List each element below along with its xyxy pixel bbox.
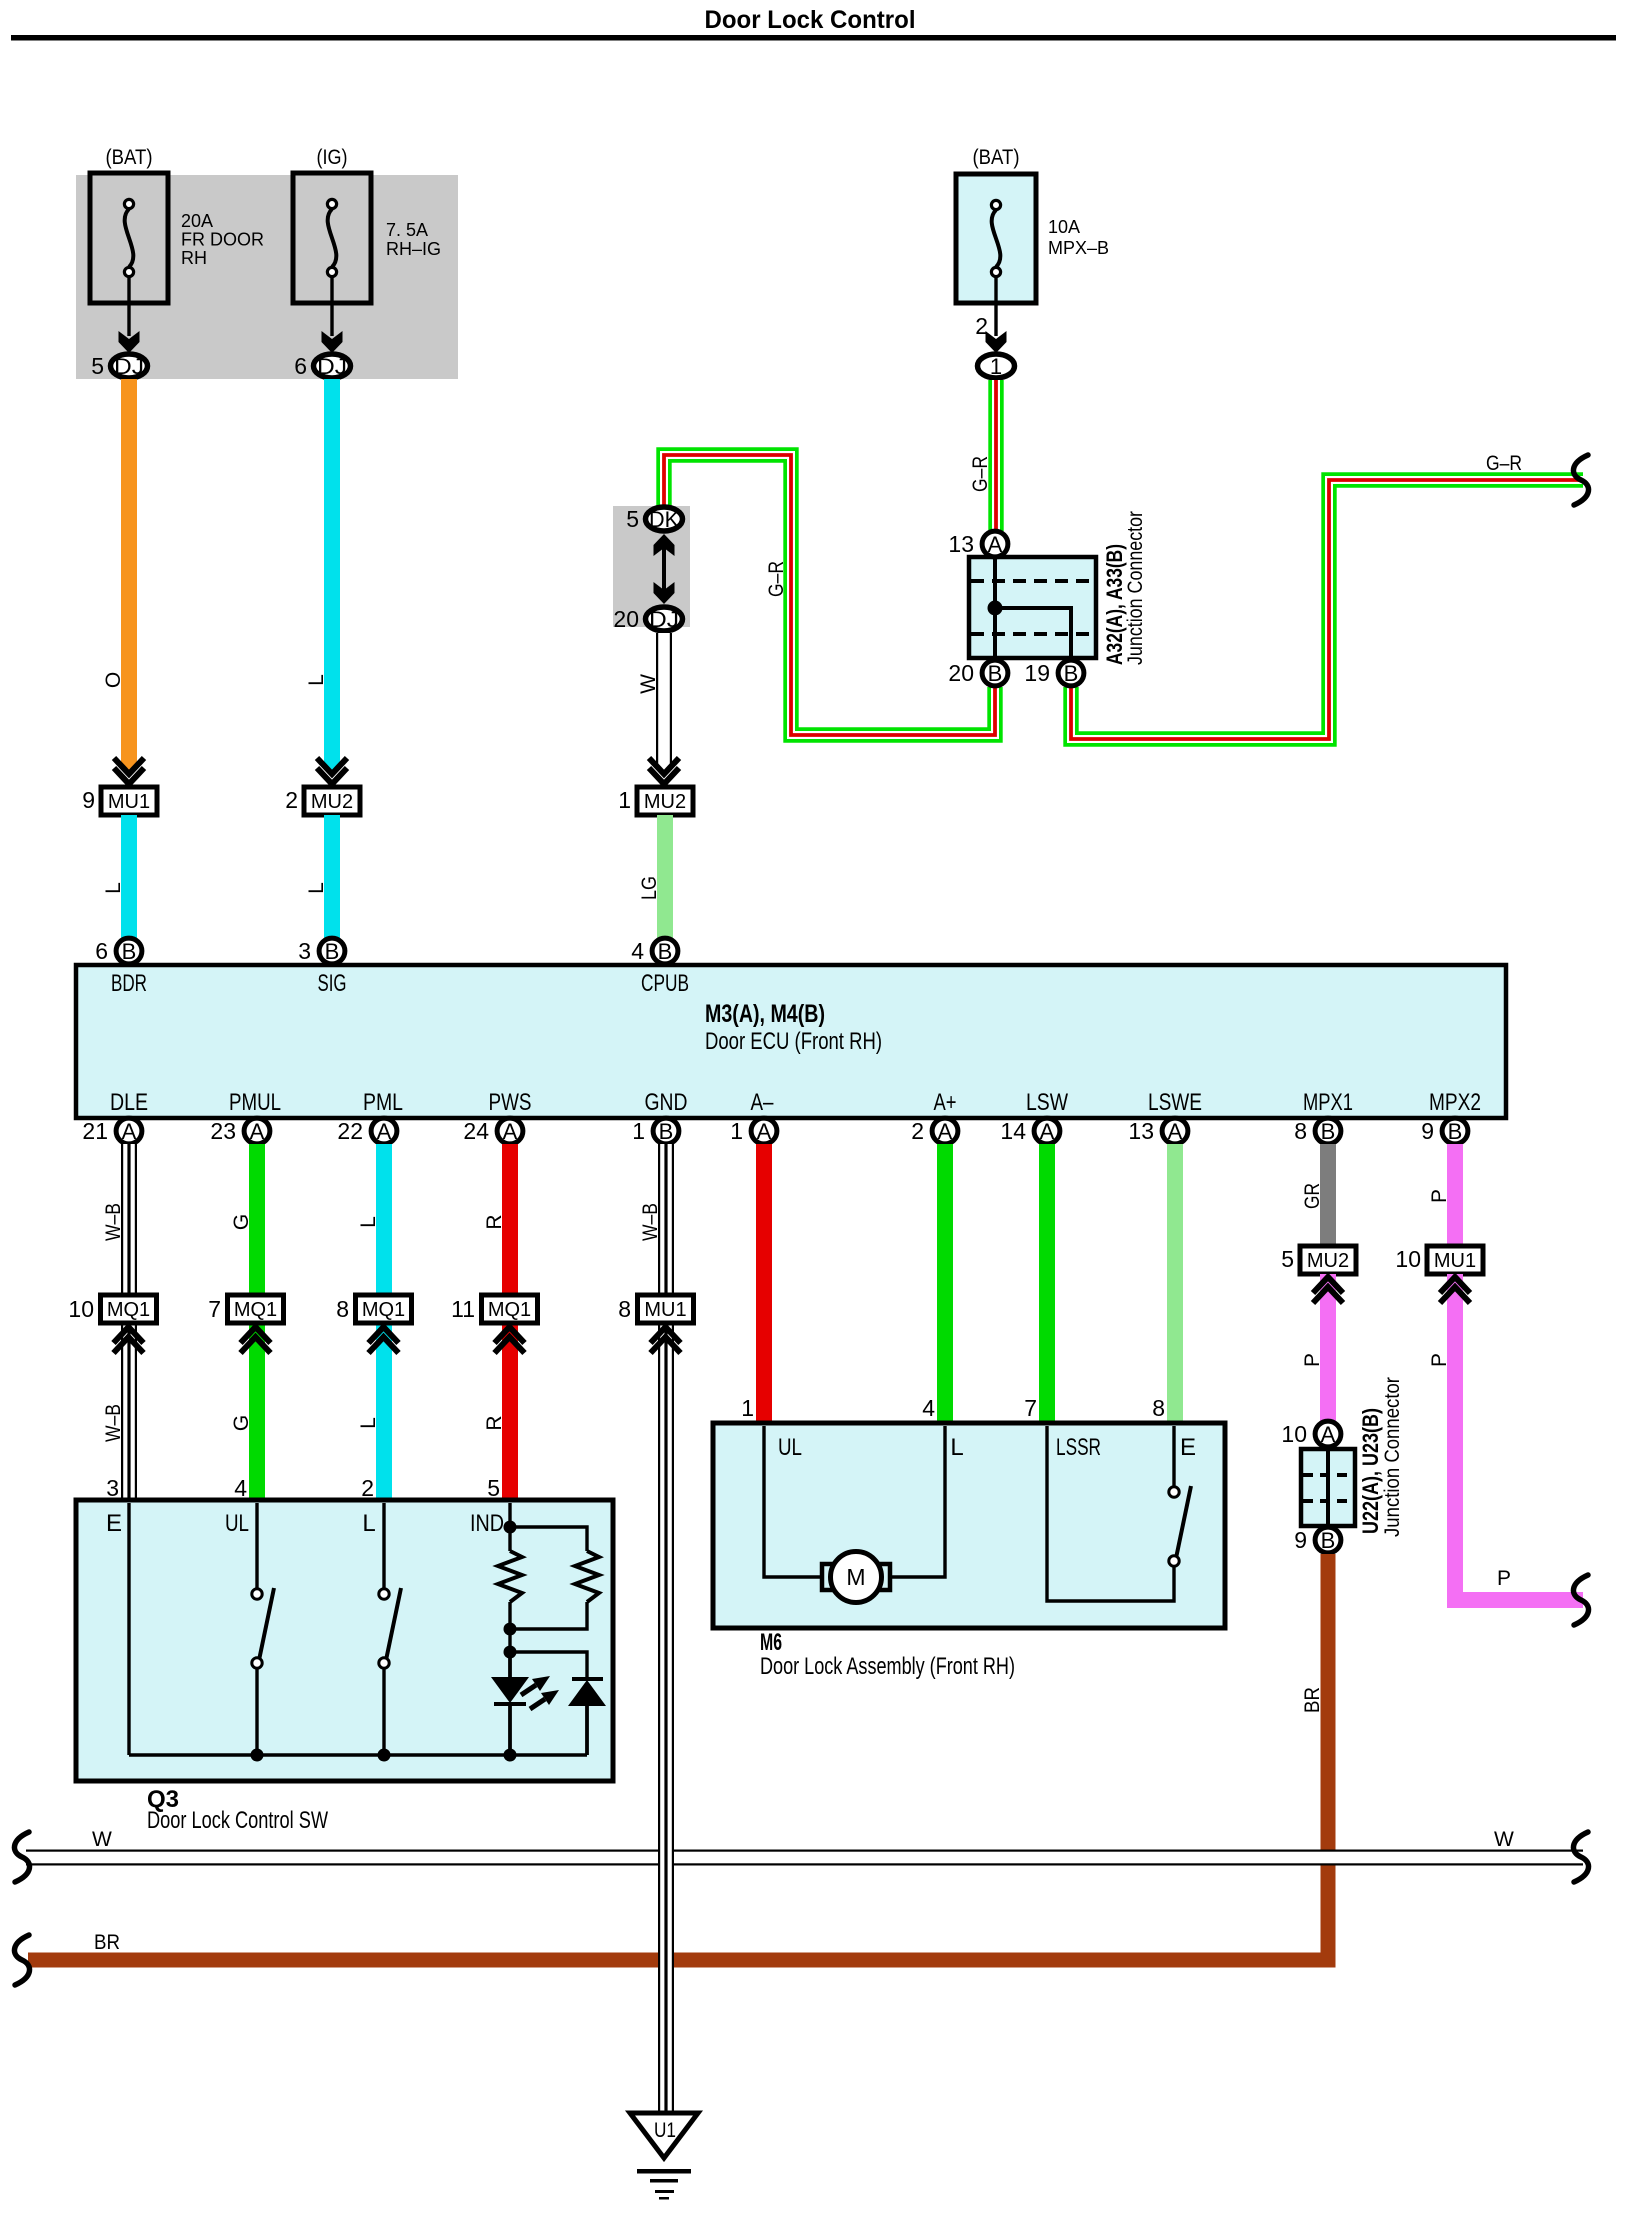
svg-text:M: M (846, 1564, 865, 1590)
U22 dashed row 1 (1303, 1473, 1353, 1477)
svg-text:G: G (230, 1415, 253, 1431)
svg-text:B: B (988, 661, 1003, 686)
pin 13 A LSWE (1128, 1118, 1187, 1144)
break symbol BR left (14, 1935, 29, 1985)
svg-text:U1: U1 (654, 2119, 676, 2142)
connector 8 MU1 (618, 1295, 693, 1323)
Q3 resistor joins (504, 1602, 588, 1678)
svg-text:4: 4 (631, 938, 644, 964)
svg-text:UL: UL (778, 1434, 802, 1461)
svg-text:(BAT): (BAT) (973, 146, 1020, 169)
svg-text:A: A (1168, 1119, 1183, 1144)
svg-text:10: 10 (68, 1296, 94, 1322)
svg-text:2: 2 (975, 313, 988, 339)
Q3 L to bus (378, 1668, 391, 1762)
svg-text:W–B: W–B (102, 1203, 125, 1241)
svg-text:9: 9 (82, 787, 95, 813)
svg-text:MU1: MU1 (644, 1299, 686, 1321)
pin 6 B BDR (95, 938, 142, 964)
motor M (822, 1552, 890, 1603)
svg-text:B: B (658, 939, 673, 964)
arrow below MQ1 (10) (114, 1327, 144, 1353)
svg-text:W: W (92, 1828, 112, 1851)
label R (IND) (483, 1415, 506, 1430)
svg-text:W–B: W–B (102, 1404, 125, 1442)
svg-text:B: B (659, 1119, 674, 1144)
fuse 20A value labels (181, 211, 264, 268)
svg-text:A: A (250, 1119, 265, 1144)
pin 14 A LSW (1000, 1118, 1059, 1144)
arrow below MU1 (10) (1440, 1277, 1470, 1303)
svg-text:DJ: DJ (649, 607, 679, 632)
svg-text:Junction Connector: Junction Connector (1124, 511, 1147, 665)
svg-text:11: 11 (451, 1296, 475, 1322)
svg-text:Door Lock Control SW: Door Lock Control SW (147, 1807, 328, 1834)
svg-text:PMUL: PMUL (229, 1089, 281, 1116)
svg-text:10: 10 (1281, 1421, 1307, 1447)
Q3 L lead (382, 1503, 385, 1590)
label GR (1301, 1183, 1324, 1209)
wire L cyan left (324, 379, 340, 770)
Q3 unlock switch (252, 1588, 274, 1668)
ground hatch (637, 2169, 691, 2200)
wire L to SIG (324, 815, 340, 940)
svg-text:P: P (1428, 1353, 1451, 1367)
svg-text:2: 2 (361, 1475, 374, 1501)
svg-text:UL: UL (225, 1510, 249, 1537)
svg-text:RH: RH (181, 248, 207, 268)
label W right (1494, 1828, 1514, 1851)
svg-text:L: L (950, 1434, 963, 1461)
gray panel DK/DJ (613, 506, 690, 627)
svg-text:2: 2 (911, 1118, 924, 1144)
break symbol W left (14, 1832, 29, 1882)
svg-text:LSW: LSW (1026, 1089, 1068, 1116)
wire G-R fuse to A13 (988, 380, 1003, 531)
Q3 IND lead (504, 1503, 517, 1551)
svg-text:5: 5 (626, 506, 639, 532)
label W-B DLE (102, 1203, 125, 1241)
svg-text:8: 8 (1294, 1118, 1307, 1144)
pin 19 B on A32 (1024, 660, 1083, 686)
svg-text:DJ: DJ (114, 354, 144, 379)
svg-text:PML: PML (363, 1089, 403, 1116)
svg-text:W: W (1494, 1828, 1514, 1851)
M6 UL lead (764, 1426, 822, 1577)
label A32(A), A33(B) (1102, 544, 1127, 665)
svg-text:MU2: MU2 (1307, 1250, 1349, 1272)
svg-text:22: 22 (337, 1118, 363, 1144)
svg-text:B: B (1321, 1119, 1336, 1144)
M6 name (760, 1629, 1015, 1680)
wire R to Q3 IND (502, 1323, 518, 1500)
label P (MPX2 upper) (1428, 1189, 1451, 1203)
label O (102, 672, 125, 688)
wire GR MPX1 (1320, 1144, 1336, 1248)
fuse 10A value labels (1048, 217, 1109, 258)
label P (MPX1) (1301, 1353, 1324, 1367)
break symbol W right (1573, 1832, 1588, 1882)
svg-text:A–: A– (751, 1089, 775, 1116)
Q3 lock switch (379, 1588, 401, 1668)
arrow into MU2 (317, 758, 347, 784)
wire W-B GND lower (658, 1790, 674, 2113)
svg-text:BR: BR (94, 1931, 120, 1954)
svg-text:P: P (1301, 1353, 1324, 1367)
label G (UL) (230, 1415, 253, 1431)
svg-text:L: L (357, 1216, 380, 1228)
svg-text:B: B (1448, 1119, 1463, 1144)
break symbol G-R right (1573, 455, 1588, 505)
fuse 10A MPX-B box (956, 174, 1036, 303)
A32 inner dashed row 2 (971, 632, 1094, 636)
svg-text:A+: A+ (934, 1089, 957, 1116)
svg-text:5: 5 (1281, 1246, 1294, 1272)
svg-text:Door Lock Assembly (Front RH): Door Lock Assembly (Front RH) (760, 1653, 1015, 1680)
label P right (1497, 1567, 1511, 1590)
svg-text:23: 23 (210, 1118, 236, 1144)
svg-text:6: 6 (294, 353, 307, 379)
Q3 box (76, 1500, 613, 1781)
pin 24 A PWS (463, 1118, 522, 1144)
svg-text:8: 8 (1152, 1395, 1165, 1421)
svg-text:(IG): (IG) (317, 146, 348, 169)
label L PML (357, 1216, 380, 1228)
pin 8 B MPX1 (1294, 1118, 1341, 1144)
pin 10 A U22 (1281, 1421, 1340, 1447)
label L (SIG) (305, 882, 328, 894)
arrow below MQ1 (11) (495, 1327, 525, 1353)
svg-text:1: 1 (730, 1118, 743, 1144)
svg-text:BR: BR (1301, 1687, 1324, 1713)
svg-text:A: A (938, 1119, 953, 1144)
wire P below MU2 (1320, 1274, 1336, 1422)
ECU M3/M4 box (76, 965, 1506, 1118)
fuse 7.5A RH-IG box (293, 173, 371, 303)
connector 5 MU2 (1281, 1246, 1356, 1274)
label G-R mid vertical (765, 561, 788, 597)
connector 2 MU2 (285, 787, 360, 815)
label LG (638, 876, 661, 900)
pin 9 B MPX2 (1421, 1118, 1468, 1144)
ECU name (705, 1000, 882, 1055)
svg-text:MQ1: MQ1 (234, 1299, 277, 1321)
svg-text:A: A (377, 1119, 392, 1144)
connector 6 DJ (294, 353, 350, 379)
pin number 4 Q3 (234, 1475, 247, 1501)
wire L to Q3 L (376, 1323, 392, 1500)
svg-text:DK: DK (649, 507, 679, 532)
label Junction Connector (U22) (1381, 1377, 1404, 1537)
svg-text:1: 1 (990, 354, 1002, 379)
label L (Q3) (357, 1417, 380, 1429)
connector 9 MU1 (82, 787, 157, 815)
svg-text:Door Lock Control: Door Lock Control (705, 6, 916, 34)
svg-text:14: 14 (1000, 1118, 1026, 1144)
svg-text:B: B (1321, 1528, 1336, 1553)
Q3 name (147, 1786, 328, 1834)
pin 20 B on A32 (948, 660, 1007, 686)
connector 11 MQ1 (451, 1295, 537, 1323)
pin 22 A PML (337, 1118, 396, 1144)
pin number 7 M6 (1024, 1395, 1037, 1421)
wire G A+ to M6 (937, 1144, 953, 1425)
label W left (92, 1828, 112, 1851)
label W-B GND (639, 1203, 662, 1241)
pin number 1 M6 (741, 1395, 754, 1421)
wire P MPX2 (1447, 1144, 1463, 1248)
wire W-B to Q3 E (121, 1323, 137, 1500)
pin 2 A A+ (911, 1118, 958, 1144)
wire G to Q3 UL (249, 1323, 265, 1500)
svg-text:7: 7 (208, 1296, 221, 1322)
junction connector A32(A) A33(B) box (969, 557, 1096, 658)
svg-text:A: A (122, 1119, 137, 1144)
label Junction Connector (A32) (1124, 511, 1147, 665)
A32 junction dot + branch (988, 601, 1072, 657)
svg-text:Door ECU (Front RH): Door ECU (Front RH) (705, 1028, 882, 1055)
wire G PMUL (249, 1144, 265, 1295)
svg-text:L: L (357, 1417, 380, 1429)
wire L PML (376, 1144, 392, 1295)
svg-text:7. 5A: 7. 5A (386, 220, 428, 240)
svg-text:1: 1 (741, 1395, 754, 1421)
wire W white (656, 633, 672, 770)
wire W-B DLE (121, 1144, 137, 1295)
U22 inner vertical (1326, 1451, 1330, 1524)
pin number 3 Q3 (106, 1475, 119, 1501)
svg-text:A: A (1040, 1119, 1055, 1144)
label L (IG wire) (305, 674, 328, 686)
svg-text:G–R: G–R (969, 456, 992, 492)
Q3 pin names (106, 1510, 504, 1537)
svg-text:10: 10 (1395, 1246, 1421, 1272)
title: Door Lock Control (705, 6, 916, 34)
svg-text:MU1: MU1 (108, 791, 150, 813)
wire W horizontal (26, 1850, 1583, 1866)
svg-text:1: 1 (618, 787, 631, 813)
wire BR (28, 1554, 1328, 1960)
svg-text:5: 5 (487, 1475, 500, 1501)
svg-text:MQ1: MQ1 (362, 1299, 405, 1321)
svg-text:8: 8 (336, 1296, 349, 1322)
connector 10 MQ1 (68, 1295, 156, 1323)
svg-text:MU2: MU2 (311, 791, 353, 813)
wire O orange (121, 379, 137, 770)
wire L to BDR (121, 815, 137, 940)
svg-text:MPX2: MPX2 (1429, 1089, 1481, 1116)
fuse 20A symbol (124, 199, 133, 276)
double arrow DK-DJ (654, 534, 675, 604)
svg-text:E: E (106, 1510, 122, 1537)
label L (BDR) (102, 882, 125, 894)
svg-text:A: A (757, 1119, 772, 1144)
arrow below MQ1 (8) (369, 1327, 399, 1353)
label (IG) (317, 146, 348, 169)
M6 box (713, 1423, 1225, 1628)
svg-text:G–R: G–R (765, 561, 788, 597)
svg-text:B: B (325, 939, 340, 964)
svg-text:13: 13 (948, 531, 974, 557)
label G-R top right (1486, 452, 1522, 475)
svg-text:RH–IG: RH–IG (386, 239, 441, 259)
svg-text:A: A (1321, 1422, 1336, 1447)
svg-text:24: 24 (463, 1118, 489, 1144)
label R PWS (483, 1214, 506, 1229)
connector 1 MU2 (618, 787, 693, 815)
svg-text:B: B (122, 939, 137, 964)
label G PMUL (230, 1214, 253, 1230)
pin number 4 M6 (922, 1395, 935, 1421)
wire R A- to M6 (756, 1144, 772, 1425)
svg-text:R: R (483, 1415, 506, 1430)
label BR horizontal (94, 1931, 120, 1954)
svg-text:(BAT): (BAT) (106, 146, 153, 169)
svg-text:9: 9 (1421, 1118, 1434, 1144)
svg-text:L: L (102, 882, 125, 894)
A32 inner vertical wire (993, 559, 997, 656)
label (BAT) left (106, 146, 153, 169)
resistor R1 (IND) (498, 1551, 522, 1602)
svg-text:LSWE: LSWE (1148, 1089, 1202, 1116)
Q3 bottom bus (129, 1753, 587, 1756)
svg-text:9: 9 (1294, 1527, 1307, 1553)
svg-text:MQ1: MQ1 (107, 1299, 150, 1321)
svg-text:4: 4 (234, 1475, 247, 1501)
label G-R vertical (969, 456, 992, 492)
pin number 2 Q3 (361, 1475, 374, 1501)
svg-text:LG: LG (638, 876, 661, 900)
svg-text:BDR: BDR (111, 970, 147, 997)
label P (MPX2 lower) (1428, 1353, 1451, 1367)
pin number 5 Q3 (487, 1475, 500, 1501)
fuse 10A symbol (991, 200, 1000, 276)
ECU bottom pin names (110, 1089, 1481, 1116)
fuse 7.5A value labels (386, 220, 441, 259)
svg-text:20A: 20A (181, 211, 213, 231)
svg-text:13: 13 (1128, 1118, 1154, 1144)
svg-text:6: 6 (95, 938, 108, 964)
svg-text:10A: 10A (1048, 217, 1080, 237)
svg-text:MU1: MU1 (1434, 1250, 1476, 1272)
pin number 8 M6 (1152, 1395, 1165, 1421)
label BR vertical (1301, 1687, 1324, 1713)
resistor R2 (branch) (575, 1551, 599, 1602)
label U22(A), U23(B) (1358, 1408, 1383, 1534)
svg-text:5: 5 (91, 353, 104, 379)
connector 20 DJ (613, 606, 682, 632)
pin 1 B GND (632, 1118, 679, 1144)
svg-text:IND: IND (470, 1510, 504, 1537)
svg-text:CPUB: CPUB (641, 970, 689, 997)
svg-text:B: B (1064, 661, 1079, 686)
svg-text:O: O (102, 672, 125, 688)
connector 7 MQ1 (208, 1295, 283, 1323)
label (BAT) right (973, 146, 1020, 169)
Q3 IND top branch (510, 1527, 587, 1551)
svg-text:DJ: DJ (317, 354, 347, 379)
Q3 UL lead (255, 1503, 258, 1590)
svg-text:G: G (230, 1214, 253, 1230)
pin 1 A A- (730, 1118, 777, 1144)
svg-text:Junction Connector: Junction Connector (1381, 1377, 1404, 1537)
pin 3 B SIG (298, 938, 345, 964)
M6 LSSR lead (1047, 1426, 1174, 1601)
label W-B (E) (102, 1404, 125, 1442)
A32 inner dashed row 1 (971, 579, 1094, 583)
svg-text:MPX1: MPX1 (1303, 1089, 1353, 1116)
svg-text:8: 8 (618, 1296, 631, 1322)
pin 21 A DLE (82, 1118, 141, 1144)
label W vertical (637, 674, 660, 694)
title rule (11, 35, 1616, 41)
fuse 7.5A symbol (327, 199, 336, 276)
svg-text:MU2: MU2 (644, 791, 686, 813)
svg-text:L: L (305, 674, 328, 686)
M6 L lead (890, 1426, 945, 1577)
svg-text:DLE: DLE (110, 1089, 148, 1116)
svg-text:A: A (988, 532, 1003, 557)
M6 lock position switch (1169, 1486, 1191, 1566)
wire G LSW to M6 (1039, 1144, 1055, 1425)
pin 23 A PMUL (210, 1118, 269, 1144)
U22 dashed row 2 (1303, 1499, 1353, 1503)
connector 5 DJ (91, 353, 147, 379)
LED indicator (491, 1652, 559, 1762)
svg-text:MQ1: MQ1 (488, 1299, 531, 1321)
svg-text:L: L (362, 1510, 375, 1537)
M6 E lead (1172, 1426, 1175, 1488)
svg-text:P: P (1497, 1567, 1511, 1590)
svg-text:1: 1 (632, 1118, 645, 1144)
svg-text:G–R: G–R (1486, 452, 1522, 475)
arrow into MU2 (1) (649, 758, 679, 784)
ECU top pin names (111, 970, 689, 997)
M6 pin names (778, 1434, 1196, 1461)
svg-text:A: A (503, 1119, 518, 1144)
svg-text:L: L (305, 882, 328, 894)
svg-text:FR DOOR: FR DOOR (181, 230, 264, 250)
svg-text:3: 3 (298, 938, 311, 964)
wire LG LSWE to M6 (1167, 1144, 1183, 1425)
svg-text:E: E (1180, 1434, 1196, 1461)
diode (branch) (568, 1677, 606, 1755)
break symbol P right (1573, 1575, 1588, 1625)
pin 9 B U22 (1294, 1527, 1341, 1553)
ground U1 triangle (630, 2113, 698, 2158)
pin 13 A on A32 (948, 531, 1007, 557)
connector oval 1 (978, 354, 1015, 379)
wire G-R B20 to DK (664, 455, 995, 735)
svg-text:21: 21 (82, 1118, 108, 1144)
fuse 20A FR DOOR RH box (90, 173, 168, 303)
svg-text:W: W (637, 674, 660, 694)
wire R PWS (502, 1144, 518, 1295)
wire fuse2 to DJ + arrow (322, 277, 343, 353)
wire P MPX2 elbow (1455, 1274, 1583, 1600)
wire fuse1 to DJ + arrow (119, 277, 140, 353)
svg-text:2: 2 (285, 787, 298, 813)
junction connector U22/U23 box (1301, 1449, 1355, 1526)
Q3 UL to bus (251, 1668, 264, 1762)
svg-text:M3(A), M4(B): M3(A), M4(B) (705, 1000, 825, 1028)
svg-text:R: R (483, 1214, 506, 1229)
svg-text:MPX–B: MPX–B (1048, 238, 1109, 258)
Q3 E lead (127, 1503, 130, 1755)
pin 4 B CPUB (631, 938, 678, 964)
svg-text:4: 4 (922, 1395, 935, 1421)
wire fuse 10A pin 2 + arrow (975, 277, 1006, 353)
